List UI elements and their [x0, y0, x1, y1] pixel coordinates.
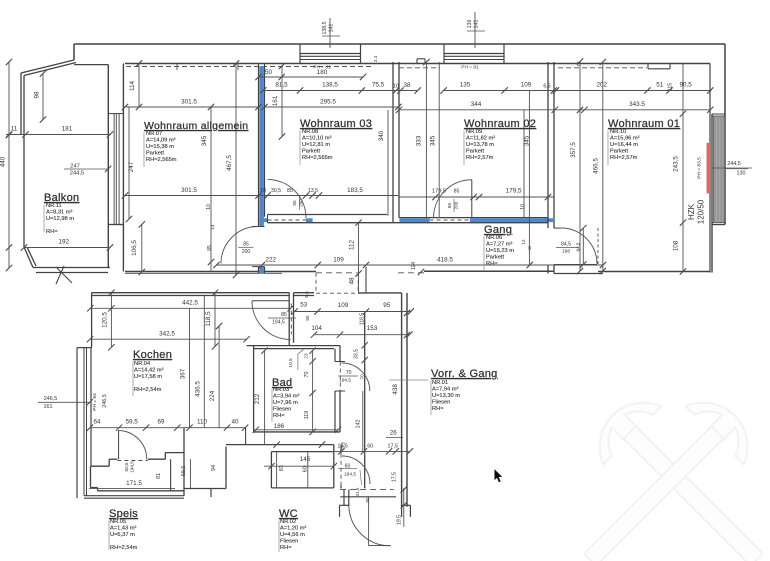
- dim 192: [24, 247, 110, 249]
- svg-text:85: 85: [287, 188, 293, 194]
- room info NR.09: [466, 129, 495, 161]
- door leaf W02: [471, 180, 473, 218]
- dim 83 line: [276, 452, 278, 488]
- svg-text:84,5: 84,5: [576, 242, 581, 251]
- door WC dashes: [340, 454, 342, 485]
- svg-text:A=11,82 m²: A=11,82 m²: [466, 136, 495, 142]
- svg-text:NR.01: NR.01: [432, 380, 448, 386]
- svg-text:A=7,94 m²: A=7,94 m²: [432, 387, 459, 393]
- svg-text:136: 136: [467, 20, 473, 29]
- dim line 69,5: [190, 459, 192, 488]
- svg-text:13,5: 13,5: [308, 188, 318, 194]
- door gang nib: [554, 227, 561, 229]
- dim 98: [42, 74, 44, 120]
- svg-text:141: 141: [329, 24, 335, 33]
- wall entrance left b: [348, 490, 350, 506]
- wall WC east stub bottom: [340, 485, 342, 488]
- wall gang north bottom line: [268, 222, 549, 224]
- svg-text:NR.09: NR.09: [466, 129, 482, 135]
- wall left top corner: [73, 44, 75, 60]
- svg-text:69,5: 69,5: [181, 466, 187, 477]
- wall shaft right: [365, 267, 367, 293]
- dim 345 W02 a: [438, 62, 440, 218]
- red PH marker line: [707, 143, 709, 194]
- svg-text:243,5: 243,5: [673, 156, 680, 172]
- wall W02 east a: [547, 62, 549, 228]
- dim 135/109/6,5: [444, 90, 557, 92]
- balcony bottom inner: [36, 272, 108, 274]
- svg-text:11: 11: [11, 126, 18, 133]
- door Wohnraum allgemein: [221, 227, 258, 264]
- svg-text:60: 60: [367, 443, 373, 449]
- svg-text:442,5: 442,5: [182, 300, 198, 307]
- wall bottom second line: [125, 272, 282, 274]
- svg-text:109: 109: [333, 257, 344, 264]
- svg-text:118,5: 118,5: [205, 311, 212, 327]
- svg-text:NR.07: NR.07: [146, 131, 162, 137]
- svg-text:48: 48: [349, 277, 356, 285]
- svg-text:RH=: RH=: [280, 545, 292, 551]
- svg-text:246,5: 246,5: [44, 396, 58, 402]
- balcony parapet slant top: [21, 60, 74, 73]
- dim window bay1: [329, 18, 331, 48]
- radiator HZK hatch: [714, 116, 723, 223]
- svg-text:RH=2,54m: RH=2,54m: [134, 387, 162, 393]
- svg-text:85: 85: [207, 245, 213, 251]
- svg-text:12: 12: [521, 239, 526, 245]
- balcony left lower: [23, 135, 25, 247]
- balcony slant bottom-left: [24, 247, 33, 268]
- svg-text:50: 50: [265, 69, 273, 76]
- wall upper section bottom right part: [598, 271, 710, 273]
- room info NR.02: [280, 519, 307, 551]
- svg-text:HZK: HZK: [687, 203, 696, 220]
- watermark crossed hammers logo: [561, 387, 770, 561]
- svg-text:RH=2,565m: RH=2,565m: [146, 157, 177, 163]
- svg-text:295.5: 295.5: [320, 99, 336, 106]
- svg-text:64: 64: [93, 419, 101, 426]
- svg-text:119: 119: [304, 411, 310, 420]
- room info NR.11: [46, 203, 74, 235]
- wall west step: [108, 224, 123, 226]
- svg-text:59,5: 59,5: [125, 419, 138, 426]
- dim 114: [138, 64, 140, 108]
- svg-text:NR.03: NR.03: [273, 387, 289, 393]
- svg-text:161: 161: [44, 404, 53, 410]
- window bay 1: [299, 44, 301, 64]
- svg-text:U=15,23 m: U=15,23 m: [486, 248, 514, 254]
- radiator cap top: [712, 113, 725, 115]
- svg-text:247: 247: [128, 161, 135, 172]
- wall step right: [712, 224, 725, 226]
- svg-text:343.5: 343.5: [629, 101, 645, 108]
- svg-text:467,5: 467,5: [226, 155, 233, 171]
- dim 171,5 line: [89, 487, 175, 489]
- svg-text:U=4,56 m: U=4,56 m: [280, 532, 305, 538]
- svg-text:PH = 84: PH = 84: [92, 393, 98, 411]
- door opening W03 dashes: [268, 219, 307, 221]
- wall stub below door: [258, 267, 260, 274]
- dim 244,5/130 radiator: [712, 167, 752, 169]
- svg-text:A=15,96 m²: A=15,96 m²: [610, 136, 640, 142]
- dim 212 line: [264, 351, 266, 444]
- wall blue vertical Wohnraum allgemein east: [258, 64, 260, 227]
- svg-text:85: 85: [305, 315, 310, 321]
- svg-text:171.5: 171.5: [126, 480, 142, 487]
- svg-text:179,5: 179,5: [432, 189, 446, 195]
- svg-text:10,5: 10,5: [288, 358, 294, 368]
- svg-text:11: 11: [527, 245, 532, 250]
- door dashes: [597, 228, 599, 266]
- door Speis leaf + arc: [118, 431, 120, 460]
- svg-text:53: 53: [300, 302, 308, 309]
- svg-text:U=12,81 m: U=12,81 m: [302, 142, 330, 148]
- svg-text:U=13,30 m: U=13,30 m: [432, 393, 460, 399]
- svg-text:198: 198: [562, 249, 570, 255]
- wall kochen east upper: [288, 293, 290, 346]
- wall blue W02 segment west: [400, 218, 430, 222]
- svg-text:106,5: 106,5: [131, 240, 138, 256]
- dim 142 line: [362, 391, 364, 451]
- wall Bad outline: [247, 345, 340, 347]
- svg-text:69: 69: [157, 419, 165, 426]
- svg-text:85: 85: [281, 312, 287, 318]
- dim 247 vertical: [128, 107, 130, 219]
- svg-text:60,5: 60,5: [124, 462, 129, 471]
- door entrance arc: [349, 506, 390, 546]
- svg-text:U=13,78 m: U=13,78 m: [466, 142, 494, 148]
- svg-text:186: 186: [274, 423, 285, 430]
- svg-text:95: 95: [383, 302, 391, 309]
- svg-text:104: 104: [311, 325, 322, 332]
- svg-text:Parkett: Parkett: [466, 149, 484, 155]
- wall lower top b: [294, 292, 315, 294]
- leader Vorr&Gang: [389, 379, 428, 381]
- entrance dim vertical: [368, 497, 370, 546]
- svg-text:10: 10: [206, 204, 212, 210]
- svg-text:345: 345: [201, 135, 208, 146]
- svg-text:70: 70: [304, 372, 310, 378]
- svg-text:440: 440: [0, 156, 7, 167]
- svg-text:Parkett: Parkett: [610, 149, 628, 155]
- window bay 2: [443, 44, 445, 64]
- wall blue W02 segment east: [470, 218, 553, 222]
- dim 106,5: [141, 224, 143, 272]
- svg-text:153: 153: [367, 325, 378, 332]
- dim 333: [425, 62, 427, 218]
- svg-text:RH=: RH=: [46, 229, 58, 235]
- room info NR.10: [610, 129, 640, 161]
- wall inner right: [711, 114, 713, 273]
- wall above WC: [226, 444, 334, 446]
- svg-text:U=12,98 m: U=12,98 m: [46, 216, 74, 222]
- svg-text:Kochen: Kochen: [133, 349, 172, 361]
- svg-text:114: 114: [129, 80, 136, 91]
- room info NR.08: [302, 129, 333, 161]
- door Wohnraum 02: [434, 180, 472, 218]
- balcony parapet left outer: [20, 73, 22, 135]
- svg-text:436,5: 436,5: [195, 381, 202, 397]
- wall east outer a: [401, 293, 403, 507]
- window notch W01: [647, 64, 649, 69]
- door Kochen (leaf + arc): [252, 300, 289, 302]
- svg-text:90,5: 90,5: [679, 82, 692, 89]
- svg-text:A=10,10 m²: A=10,10 m²: [302, 136, 332, 142]
- svg-text:PH = 83,5: PH = 83,5: [697, 157, 703, 179]
- dim 345 W.allg: [210, 107, 212, 272]
- wall step stub: [210, 489, 212, 498]
- dim 112/48: [358, 223, 360, 294]
- svg-text:NR.05: NR.05: [110, 519, 126, 525]
- wall step below kochen a: [183, 428, 185, 430]
- room info NR.01: [432, 380, 460, 412]
- svg-text:RH=: RH=: [486, 261, 498, 267]
- wall W03 east b: [398, 62, 400, 218]
- svg-text:38: 38: [403, 82, 411, 89]
- svg-text:120/50: 120/50: [697, 199, 706, 224]
- svg-text:109: 109: [338, 302, 349, 309]
- svg-text:NR.04: NR.04: [134, 361, 150, 367]
- svg-text:85: 85: [454, 189, 460, 195]
- dim 344: [399, 109, 555, 111]
- svg-text:85: 85: [243, 242, 249, 248]
- svg-text:109: 109: [521, 82, 532, 89]
- dim 442,5: [90, 307, 290, 309]
- svg-text:85: 85: [447, 203, 452, 209]
- svg-text:Parkett: Parkett: [302, 149, 320, 155]
- svg-text:344: 344: [471, 101, 482, 108]
- svg-text:RH=2,57m: RH=2,57m: [610, 155, 638, 161]
- svg-text:118,5: 118,5: [359, 313, 365, 325]
- svg-text:438: 438: [392, 384, 399, 395]
- door WC east arc: [342, 456, 370, 484]
- svg-text:70: 70: [360, 374, 366, 380]
- svg-text:A=14,09 m²: A=14,09 m²: [146, 138, 176, 144]
- svg-text:138,5: 138,5: [322, 82, 338, 89]
- dim 19,5/60/17,5: [330, 450, 410, 452]
- dim 357,5: [579, 62, 581, 272]
- svg-text:83: 83: [279, 465, 285, 471]
- svg-text:418.5: 418.5: [437, 257, 453, 264]
- svg-text:108: 108: [673, 240, 680, 251]
- svg-text:Parkett: Parkett: [486, 255, 504, 261]
- svg-text:60: 60: [302, 466, 308, 472]
- svg-text:85: 85: [292, 200, 297, 206]
- svg-text:51: 51: [656, 82, 664, 89]
- svg-text:NR.11: NR.11: [46, 203, 62, 209]
- dim 224: [218, 326, 220, 428]
- svg-text:NR.02: NR.02: [280, 519, 296, 525]
- svg-text:183,5: 183,5: [347, 187, 363, 194]
- svg-text:194,5: 194,5: [272, 320, 285, 326]
- svg-text:31,5: 31,5: [355, 487, 360, 496]
- balcony top edge at building: [74, 64, 108, 66]
- dashed line between sections b: [398, 272, 424, 274]
- dim 11/181: [6, 134, 110, 136]
- dim vertical 529: [528, 91, 530, 265]
- wall step right: [225, 447, 227, 489]
- dim door height gang: [582, 228, 584, 264]
- dim 161: [281, 66, 283, 137]
- wall west room face: [122, 64, 124, 272]
- svg-text:U=17,58 m: U=17,58 m: [134, 374, 162, 380]
- dim 466,5: [602, 62, 604, 271]
- svg-text:145: 145: [300, 456, 311, 463]
- svg-text:Fliesen: Fliesen: [273, 407, 291, 413]
- svg-text:179,5: 179,5: [506, 188, 522, 195]
- wall W03 east a: [392, 62, 394, 223]
- dim 340: [387, 110, 389, 216]
- svg-text:A=1,20 m²: A=1,20 m²: [280, 526, 307, 532]
- wall outer right: [724, 44, 726, 225]
- svg-text:6,5: 6,5: [543, 83, 550, 89]
- dim 64/59,5/69/110/40: [90, 427, 245, 429]
- dim 104/153: [314, 334, 409, 336]
- svg-text:33,5: 33,5: [354, 349, 360, 359]
- svg-text:120,5: 120,5: [101, 312, 108, 328]
- svg-text:112: 112: [349, 239, 356, 250]
- door WC leaf: [360, 470, 362, 485]
- wall entrance left a: [343, 490, 345, 506]
- dim 145: [264, 465, 334, 467]
- wall lower top a: [92, 292, 290, 294]
- svg-text:180: 180: [317, 69, 328, 76]
- svg-text:NR.08: NR.08: [302, 129, 318, 135]
- svg-text:202: 202: [596, 82, 607, 89]
- dim 50/180: [259, 76, 364, 78]
- dim 436,5: [203, 296, 205, 428]
- svg-text:A=8,31 m²: A=8,31 m²: [46, 210, 73, 216]
- svg-text:70: 70: [346, 370, 352, 376]
- svg-text:340: 340: [378, 130, 385, 141]
- door Wohnraum 03: [268, 180, 307, 219]
- svg-text:181: 181: [62, 126, 73, 133]
- svg-text:200: 200: [242, 249, 251, 255]
- wall inner right face: [709, 64, 711, 273]
- svg-text:U=16,44 m: U=16,44 m: [610, 142, 638, 148]
- wall upper section bottom left part: [125, 271, 316, 273]
- wall entrance top line: [340, 496, 396, 498]
- svg-text:A=1,43 m²: A=1,43 m²: [110, 526, 137, 532]
- dim 23/70/119 line: [312, 351, 314, 432]
- door Bad east (dashes + arc): [339, 362, 341, 392]
- dim 467,5: [235, 64, 237, 276]
- svg-text:194,5: 194,5: [339, 378, 351, 384]
- wall entrance left bracket: [340, 504, 350, 506]
- svg-text:222: 222: [266, 257, 277, 264]
- svg-text:98: 98: [34, 91, 41, 99]
- dim 440 balcony height: [8, 62, 10, 268]
- svg-text:A=3,94 m²: A=3,94 m²: [273, 394, 300, 400]
- svg-text:U=15,38 m: U=15,38 m: [146, 144, 174, 150]
- dim 295.5: [265, 106, 399, 108]
- svg-text:Vorr. & Gang: Vorr. & Gang: [431, 368, 498, 380]
- wall Speis outline: [109, 458, 117, 460]
- svg-text:PH = 81: PH = 81: [461, 65, 479, 71]
- svg-text:Parkett: Parkett: [146, 151, 164, 157]
- svg-text:301.5: 301.5: [181, 187, 197, 194]
- wall stub at 245: [245, 428, 247, 445]
- svg-text:14: 14: [210, 224, 215, 230]
- wall WC east stub top: [340, 445, 342, 454]
- svg-text:23: 23: [304, 353, 309, 359]
- balcony window frame: [108, 113, 123, 115]
- svg-text:6,5: 6,5: [304, 291, 309, 298]
- svg-text:RH=2,57m: RH=2,57m: [466, 155, 494, 161]
- svg-text:246,5: 246,5: [102, 394, 108, 408]
- svg-text:84,5: 84,5: [561, 242, 571, 248]
- dim 202/51/115/90,5: [556, 90, 712, 92]
- dashed line between sections a: [316, 272, 358, 274]
- dim 120,5: [110, 293, 112, 348]
- svg-text:130: 130: [737, 171, 746, 177]
- svg-text:357,5: 357,5: [570, 142, 577, 158]
- dim 81,5/138,5/75,5/10/38: [263, 90, 418, 92]
- wall vorr west: [364, 313, 366, 488]
- svg-text:224: 224: [209, 390, 216, 401]
- dim 243,5/108: [682, 64, 684, 272]
- radiator border: [714, 116, 724, 223]
- shaft dashed box: [315, 273, 317, 293]
- dim 222/109/418,5 gang: [216, 264, 603, 266]
- wall lower top c: [358, 292, 401, 294]
- dashed line PH right: [558, 67, 647, 69]
- wall west upper single: [91, 293, 93, 348]
- dim 118,5: [214, 293, 216, 347]
- svg-text:367: 367: [180, 368, 187, 379]
- dim 345 W02 b: [523, 110, 525, 218]
- svg-text:466,5: 466,5: [593, 158, 600, 174]
- room info NR.07: [146, 131, 177, 163]
- radiator cap bottom: [712, 222, 725, 224]
- svg-text:81: 81: [156, 473, 162, 479]
- dashed entrance line: [340, 489, 394, 491]
- dim window bay2: [474, 12, 476, 48]
- dim 19,5 entrance right: [403, 488, 405, 527]
- svg-text:10: 10: [393, 84, 399, 90]
- svg-text:10: 10: [260, 188, 266, 194]
- svg-text:333: 333: [416, 135, 423, 146]
- svg-text:RH=: RH=: [432, 406, 444, 412]
- svg-text:244,5: 244,5: [727, 161, 741, 167]
- svg-text:192: 192: [59, 239, 70, 246]
- dashed line PH left: [126, 66, 372, 68]
- svg-text:19,5: 19,5: [397, 515, 403, 525]
- wall W02 east b: [553, 62, 555, 228]
- wall W03 bottom top line: [268, 214, 388, 216]
- svg-text:19,5: 19,5: [341, 441, 346, 450]
- window notch W02: [416, 59, 418, 64]
- room info NR.05: [110, 519, 138, 551]
- svg-text:115: 115: [668, 83, 674, 91]
- wall bottom step: [554, 273, 603, 275]
- door Gang to Wohnraum 01: [561, 228, 597, 264]
- dim 367: [189, 308, 191, 427]
- svg-text:26: 26: [390, 430, 398, 437]
- wall W02 bottom top line: [399, 217, 548, 219]
- svg-text:194,5: 194,5: [130, 461, 135, 473]
- svg-text:80: 80: [365, 497, 370, 502]
- svg-text:Fliesen: Fliesen: [432, 400, 450, 406]
- svg-text:138,5: 138,5: [322, 21, 328, 34]
- wall room top inner: [125, 63, 710, 65]
- wall blue piece W03 door east: [306, 218, 313, 222]
- room info NR.06: [486, 235, 514, 267]
- wall step bottom: [184, 488, 226, 490]
- svg-text:194,5: 194,5: [344, 472, 356, 478]
- svg-text:142: 142: [355, 420, 361, 429]
- dim 179,5/85 W02: [399, 196, 554, 198]
